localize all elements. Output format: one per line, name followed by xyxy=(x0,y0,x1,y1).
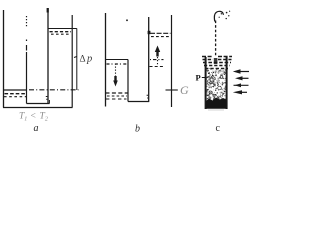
spray droplets xyxy=(226,12,228,14)
inner tube bottom xyxy=(27,103,50,105)
left compartment dashes row 1 xyxy=(5,93,27,95)
caption T1 < T2 xyxy=(19,112,48,123)
inner tube left wall dotted upper part xyxy=(26,16,28,27)
top dot above right wall xyxy=(126,20,128,22)
tube B2 top level dashes xyxy=(151,36,170,38)
inner tube right wall full height xyxy=(47,8,49,104)
tube foot blob xyxy=(214,58,218,64)
tube B2 lower level dash-dot xyxy=(150,59,164,61)
down arrow bold shaft xyxy=(114,76,116,82)
bottom channel horizontal xyxy=(128,101,149,103)
tube B1 right wall xyxy=(127,60,129,102)
bracket mid nib xyxy=(74,57,77,58)
riser tube dashed xyxy=(215,21,217,57)
air arrow 4 xyxy=(240,91,247,93)
spout curl xyxy=(214,11,223,21)
vessel left wall xyxy=(205,57,207,109)
porous interior speckle xyxy=(206,68,227,101)
up arrow dotted shaft xyxy=(157,57,159,65)
dash-dot reference level line xyxy=(29,89,79,91)
air arrow 3 xyxy=(234,84,249,86)
vessel A outer right wall xyxy=(71,15,73,108)
cross tick on right line xyxy=(166,89,178,91)
label G xyxy=(180,83,189,97)
dash remnant ticks on tube wall xyxy=(46,97,48,100)
dark bottom sediment xyxy=(206,98,226,109)
stopper hatch row 3 xyxy=(203,62,231,64)
inner tube left wall mid dot xyxy=(26,40,28,42)
svg-text:a: a xyxy=(34,123,39,134)
svg-text:b: b xyxy=(135,124,140,135)
inner tube left wall solid lower part xyxy=(26,52,28,104)
bold blob at level start xyxy=(148,31,151,34)
svg-text:P: P xyxy=(196,73,201,83)
air arrow 1 xyxy=(236,71,249,73)
tube B1 level dash row xyxy=(107,63,128,65)
vessel right wall xyxy=(226,57,228,109)
stopper hatch row 4 xyxy=(204,65,230,67)
left compartment level solid xyxy=(4,89,27,91)
riser tick dashes xyxy=(147,95,148,98)
up arrow bold shaft xyxy=(156,51,158,57)
level dashes row 1 xyxy=(50,31,72,33)
P leader tick xyxy=(202,77,206,79)
tube B1 initial level solid xyxy=(106,59,129,61)
liquid level right compartment solid line xyxy=(48,28,72,30)
tube B1 liquid dashes row 3 xyxy=(106,98,127,100)
up arrow head xyxy=(155,46,160,53)
stopper hatch row 5 xyxy=(205,68,228,70)
inner tube bottom right step tick xyxy=(48,100,50,104)
dimension bracket vertical xyxy=(76,29,78,91)
dimension bracket top hook xyxy=(72,28,77,30)
down arrow head xyxy=(113,81,118,87)
svg-text:G: G xyxy=(180,83,189,97)
inner tube left wall short dash xyxy=(26,45,28,51)
interior grain circles xyxy=(210,78,214,82)
stopper hatch row 1 xyxy=(202,56,232,58)
vessel A outer left wall xyxy=(3,10,5,108)
svg-text:T1<T2: T1<T2 xyxy=(19,112,48,123)
svg-text:c: c xyxy=(216,123,221,134)
tube B1 liquid dashes row 2 xyxy=(107,95,127,97)
thick tip at top of tube wall xyxy=(47,8,49,13)
tube B1 liquid dashes row 1 xyxy=(106,92,128,94)
vessel A outer bottom xyxy=(3,107,73,109)
sediment smudge xyxy=(208,109,224,111)
tube B2 left wall xyxy=(148,17,150,102)
stopper hatch row 2 xyxy=(203,59,232,61)
air arrow 2 xyxy=(238,77,249,79)
tube B1 left wall xyxy=(105,13,107,107)
tube B2 right line xyxy=(171,15,173,107)
left compartment dashes row 2 xyxy=(4,96,26,98)
tube B2 lower level dashes xyxy=(150,66,164,68)
down arrow dotted shaft xyxy=(115,64,117,77)
level dashes row 2 xyxy=(51,33,71,35)
tube B2 top level nearly solid xyxy=(150,32,171,34)
